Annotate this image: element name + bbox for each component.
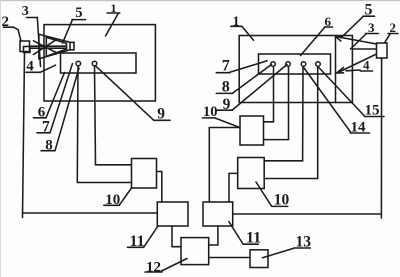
svg-text:5: 5 [75,5,82,21]
box 10 right lower [238,158,265,189]
svg-text:5: 5 [365,2,373,19]
svg-text:2: 2 [2,14,10,30]
inner rectangle (electrode block) left [61,53,137,73]
wire: box11R to box12 [209,226,218,245]
svg-text:4: 4 [26,59,34,75]
svg-text:4: 4 [363,58,370,73]
leader label 3 left [37,18,40,67]
horn left outer [39,34,70,59]
leader label 15 [318,67,364,116]
wire: box10Rb to box11R [229,173,238,202]
leader label 8 right [233,65,272,94]
svg-text:10: 10 [274,192,290,209]
wire: left feed drop [23,52,25,218]
electrode circle right 1 [271,62,276,67]
leader label 7 left [50,64,73,133]
horn left tip bar [70,42,74,50]
svg-text:7: 7 [222,58,230,75]
svg-text:9: 9 [157,105,165,122]
partition line right [335,36,337,103]
wire: box10L to box11L [157,172,162,203]
leader label 14 [303,67,350,132]
leader label 4 right [346,69,360,72]
electrode circle right 4 [316,62,321,67]
wire: right feed drop [380,58,382,218]
horn left axis lines [30,45,67,47]
leader label 7 right [230,61,267,73]
box 11 left [157,202,188,226]
svg-text:3: 3 [22,4,29,19]
electrode circle left 1 [76,61,81,66]
wire: left bottom bus [23,212,158,214]
box 10 right upper [240,116,264,145]
svg-text:12: 12 [146,259,161,275]
horn right top flare [337,37,377,44]
svg-text:8: 8 [45,138,53,154]
svg-text:2: 2 [390,20,397,35]
wire: circle L1 drop to box 10 left [77,66,131,183]
box 11 right [203,202,233,226]
wire: right bottom bus [233,213,382,215]
box 12 [181,238,209,265]
leader label 10 left [120,188,132,205]
wire: circle R1 drop to box 10Ra [264,66,274,122]
leader label 1 right [242,26,254,40]
svg-text:9: 9 [223,96,231,113]
svg-text:15: 15 [365,103,380,119]
block 1 right (outer box) [239,36,352,103]
svg-text:14: 14 [351,120,367,136]
leader label 5 left [63,20,73,43]
leader label 10 right lower [256,182,272,206]
leader label 6 left [46,73,65,118]
svg-text:11: 11 [130,233,145,250]
svg-text:1: 1 [233,14,240,29]
horn right bottom flare [338,54,377,73]
leader label 12 [162,259,188,272]
horn left cross lines [34,41,57,53]
scan edge top [0,0,400,2]
svg-text:1: 1 [111,1,117,15]
electrode circle right 2 [286,62,291,67]
leader label 9 left [96,66,154,121]
box 13 [250,250,268,268]
wire: box12 to box13 [209,257,250,259]
leader label 4 left [40,65,55,72]
horn right bottom arrowhead [337,68,344,74]
wire: circle R4 drop to box 10Rb [264,66,318,178]
svg-text:10: 10 [105,192,120,208]
inner rectangle (electrode block) right [259,54,331,74]
leader label 2 right [385,34,391,43]
wire: circle L2 drop to box 10 left [95,66,132,165]
wire: box10Ra to box11R [209,128,240,203]
electrode circle left 2 [92,61,97,66]
leader label 6 right [301,28,325,56]
horn right axis [352,48,376,50]
box 2 left (feed box) [20,41,30,52]
horn left inner [46,37,66,56]
leader label 2 left [14,27,22,41]
svg-text:7: 7 [42,118,50,135]
leader label 11 left [144,226,158,247]
svg-text:3: 3 [368,20,375,35]
block 1 left (outer box) [44,25,155,101]
leader label 11 right [229,222,243,245]
box 2 right [377,43,388,58]
svg-text:6: 6 [325,14,332,29]
wire: box11L to box12 [172,226,181,247]
leader label 8 left [55,68,79,151]
scan edge left [0,0,1,277]
leader label 9 right [232,65,287,111]
horn right top arrowhead [336,36,342,41]
box 10 left [132,159,157,189]
svg-text:11: 11 [246,229,261,246]
svg-text:8: 8 [222,79,230,96]
svg-text:13: 13 [296,234,312,251]
wire: circle R3 drop to box 10Rb [264,66,303,161]
leader label 5 right [341,16,364,38]
leader label 10 right upper [215,118,240,128]
leader label 1 left [106,13,119,36]
leader label 13 [263,248,294,258]
wire: circle R2 drop to box 10Ra [264,66,289,139]
svg-text:10: 10 [203,104,218,120]
electrode circle right 3 [301,62,306,67]
leader label 3 right [351,34,367,50]
